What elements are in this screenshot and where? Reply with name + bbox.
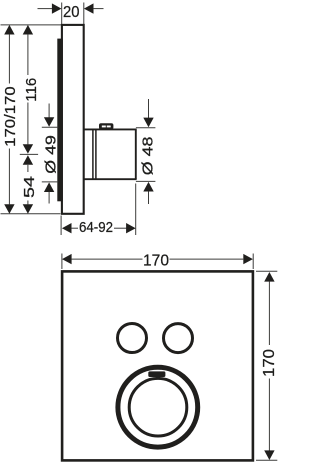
dim 64-92 label xyxy=(79,219,113,236)
stop button on cartridge top xyxy=(99,123,113,129)
thermostat knob inner ring xyxy=(129,378,187,436)
dim diameter 48 label xyxy=(139,137,156,176)
dim 170/170 line xyxy=(4,25,14,214)
dim 64-92 extension line left xyxy=(60,216,62,236)
dim 64-92 arrow right (points right) xyxy=(114,223,136,233)
dim 170 top extension right xyxy=(252,254,254,270)
dim 170 right arrow bottom (points down) xyxy=(264,379,274,461)
select button right (small circle) xyxy=(164,324,193,353)
svg-text:64-92: 64-92 xyxy=(79,219,113,236)
dim diameter 48 arrow bottom (points up) xyxy=(143,182,153,204)
dim diameter 49 arrow bottom (points up) xyxy=(44,182,54,203)
cartridge flange double line xyxy=(93,129,96,179)
dim 170 right arrow top (points up) xyxy=(264,272,274,345)
dim 20 arrow right (points left) xyxy=(84,3,104,13)
dim 116 label xyxy=(23,78,40,102)
dim 54 line xyxy=(23,155,33,214)
front plate square xyxy=(62,271,253,460)
dim 170 top arrow right (points right) xyxy=(170,254,253,264)
thermostat grip tab xyxy=(148,371,165,377)
svg-text:170/170: 170/170 xyxy=(2,86,19,147)
dim diameter 49 label xyxy=(42,135,59,174)
dim diameter 49 ticks xyxy=(42,126,59,128)
top extension line to left dims xyxy=(1,24,62,26)
dim 20 extension line right xyxy=(83,3,85,25)
svg-text:Ø 48: Ø 48 xyxy=(139,137,156,176)
dim 116/54 junction tick xyxy=(20,153,38,155)
dim 116 line xyxy=(23,25,33,154)
dim 170/170 label xyxy=(2,86,19,147)
svg-text:20: 20 xyxy=(63,4,80,21)
svg-text:116: 116 xyxy=(23,78,40,102)
dim 64-92 arrow left (points left) xyxy=(62,223,78,233)
dim 170 right extension top xyxy=(256,270,277,272)
thermostat knob outer ring xyxy=(118,367,198,447)
dim diameter 48 ticks xyxy=(136,127,156,129)
dim 170 top arrow left (points left) xyxy=(62,254,143,264)
dim diameter 48 arrow top (points down) xyxy=(143,99,153,127)
dim 170 right extension bottom xyxy=(256,459,277,461)
svg-text:Ø 49: Ø 49 xyxy=(42,135,59,174)
cartridge housing (behind wall) xyxy=(84,129,136,179)
bottom extension line to left dims xyxy=(1,213,61,215)
svg-text:54: 54 xyxy=(21,176,38,198)
dim 170 right label xyxy=(261,349,278,377)
dim 20 arrow left (points right) xyxy=(38,3,62,13)
dim 54 label xyxy=(21,176,38,198)
dim 20 label xyxy=(63,4,80,21)
dim 170 top label xyxy=(143,252,169,269)
dim 170 top extension left xyxy=(61,254,63,270)
dim diameter 49 arrow top (points down) xyxy=(44,104,54,127)
dim 20 extension line left xyxy=(61,3,63,25)
wall plate (side profile outline) xyxy=(62,25,84,214)
knob profile bar (black) xyxy=(57,39,63,202)
select button left (small circle) xyxy=(118,324,147,353)
svg-text:170: 170 xyxy=(261,349,278,377)
svg-text:170: 170 xyxy=(143,252,169,269)
dim 64-92 extension line right xyxy=(135,184,137,236)
